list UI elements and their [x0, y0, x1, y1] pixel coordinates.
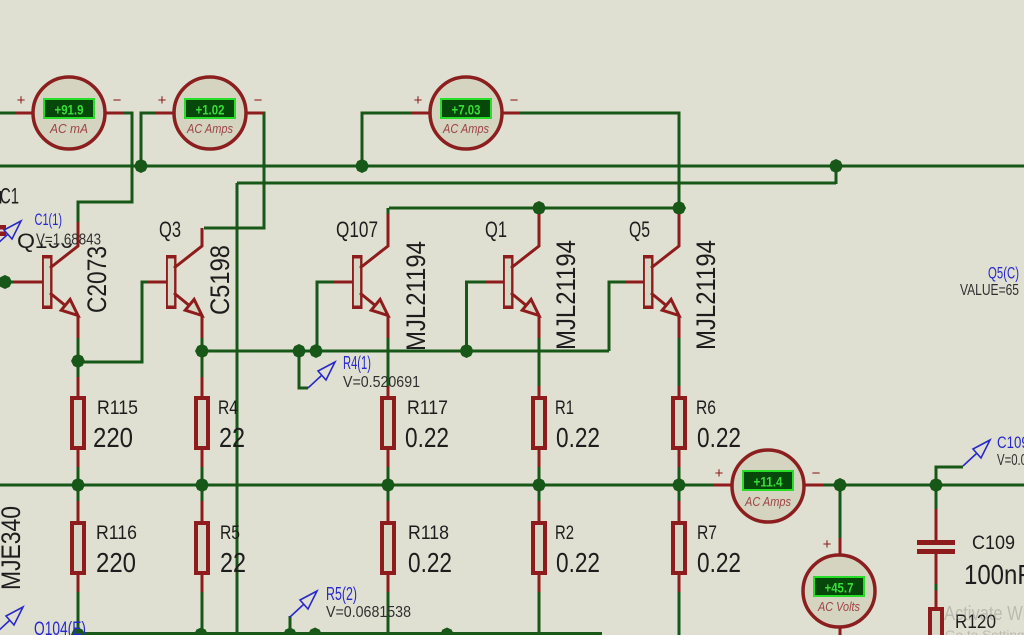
svg-text:AC Volts: AC Volts	[817, 600, 860, 614]
svg-text:R1: R1	[555, 397, 574, 419]
wire Q107 emitter to R117	[387, 337, 390, 387]
svg-text:MJE340: MJE340	[0, 506, 26, 590]
wire R1 bottom to bus3	[538, 466, 541, 485]
svg-text:−: −	[254, 92, 263, 109]
svg-text:−: −	[812, 465, 821, 482]
node Q3 emitter junction	[195, 344, 209, 358]
svg-text:Q1: Q1	[485, 217, 507, 242]
svg-text:22: 22	[220, 547, 246, 578]
node bus4 dot b	[440, 628, 454, 635]
svg-text:Q104(E): Q104(E)	[34, 619, 86, 635]
svg-text:C2073: C2073	[82, 246, 112, 313]
svg-text:+11.4: +11.4	[754, 474, 783, 490]
wire Q5 emitter to R6	[678, 337, 681, 387]
ammeter AM3 AC Amps	[412, 77, 520, 149]
resistor R1	[531, 386, 547, 467]
svg-text:V=0.520691: V=0.520691	[343, 374, 420, 391]
svg-text:−: −	[113, 92, 122, 109]
node bus1 x bus2 riser	[829, 159, 843, 173]
probe arrow C1(1)	[0, 221, 21, 247]
transistor Q106 C2073	[14, 222, 78, 338]
probe arrow R5(2)	[290, 591, 317, 617]
wire Q1 collector riser	[538, 208, 541, 216]
node bus3 x R6	[672, 478, 686, 492]
svg-text:220: 220	[93, 422, 133, 453]
svg-text:+: +	[414, 92, 423, 109]
wire R117 bottom to bus3	[387, 466, 390, 485]
svg-text:R5(2): R5(2)	[326, 584, 357, 604]
node bus3 x R4	[195, 478, 209, 492]
node ammeter4 output	[833, 478, 847, 492]
svg-text:R5: R5	[220, 522, 240, 544]
wire R6 bottom to bus3	[678, 466, 681, 485]
node bus3 x R1	[532, 478, 546, 492]
wire Q107 base riser	[317, 282, 334, 351]
svg-text:AC Amps: AC Amps	[744, 495, 791, 509]
svg-text:R4: R4	[218, 397, 238, 419]
wire Q107 collector riser	[387, 208, 390, 216]
transistor Q3 C5198	[148, 228, 202, 338]
wire bus1 main horizontal net y=166	[0, 165, 1024, 168]
node bus1 x ammeter3	[355, 159, 369, 173]
node Q106 emitter junction	[71, 354, 85, 368]
svg-text:AC Amps: AC Amps	[442, 122, 489, 136]
wire ammeter3 - down to collector net	[520, 113, 679, 208]
node bus4 x R116	[71, 628, 85, 635]
resistor R5	[194, 501, 210, 592]
probe arrow C109(1)	[963, 440, 990, 466]
node bus3 x R117	[381, 478, 395, 492]
probe arrow Q104(E)	[0, 607, 23, 633]
resistor R120	[928, 607, 944, 635]
svg-text:+45.7: +45.7	[825, 580, 854, 596]
svg-text:R6: R6	[696, 397, 716, 419]
resistor R115	[70, 377, 86, 467]
svg-text:+: +	[158, 92, 167, 109]
wire R5 bottom to bus4	[201, 592, 204, 633]
probe arrow R4(1)	[308, 362, 335, 388]
voltmeter VM1 AC Volts	[803, 536, 875, 635]
node collector net x Q1	[532, 201, 546, 215]
svg-text:Q5(C): Q5(C)	[988, 265, 1019, 283]
wire bus3 to R116 top	[77, 485, 80, 502]
svg-text:0.22: 0.22	[697, 422, 741, 453]
wire bus3 right part after ammeter4	[822, 484, 1024, 487]
svg-text:C1: C1	[0, 184, 19, 209]
wire R2 bottom to bus4	[538, 592, 541, 633]
wire bus2 horizontal net y=183	[237, 182, 836, 185]
svg-text:Go to Settings to activate Win: Go to Settings to activate Windows.	[945, 628, 1024, 635]
wire voltmeter riser from node	[839, 485, 842, 539]
wire C109 top lead	[935, 485, 938, 510]
wire R115 bottom to bus3	[77, 466, 80, 485]
svg-text:+: +	[715, 465, 724, 482]
svg-text:VALUE=65: VALUE=65	[960, 282, 1019, 299]
svg-text:+91.9: +91.9	[55, 102, 84, 118]
wire ammeter3 + from bus1 junction	[362, 113, 413, 167]
svg-text:0.22: 0.22	[556, 547, 600, 578]
wire bus3 to R118 top	[387, 485, 390, 502]
svg-text:0.22: 0.22	[697, 547, 741, 578]
svg-text:220: 220	[96, 547, 136, 578]
svg-text:Q5: Q5	[629, 217, 650, 242]
node bus4 dot a	[308, 628, 322, 635]
resistor R117	[380, 386, 396, 467]
resistor R116	[70, 501, 86, 592]
svg-text:C5198: C5198	[205, 245, 235, 315]
ammeter AM1 AC mA	[15, 77, 123, 149]
wire probe stub R5(2)	[289, 616, 292, 633]
node bus3 x R115	[71, 478, 85, 492]
wire R7 bottom lead	[678, 592, 681, 635]
svg-text:V=1.68843: V=1.68843	[36, 232, 101, 249]
svg-text:R117: R117	[407, 397, 448, 419]
wire ammeter1 + lead from left edge	[0, 112, 16, 115]
wire Q106 emitter node to R115	[77, 337, 80, 378]
svg-text:V=0.0681538: V=0.0681538	[326, 604, 411, 621]
wire ammeter1 - down to Q106 collector	[78, 113, 132, 223]
wire Q1 emitter to R1	[538, 337, 541, 387]
node bus4 x R5	[194, 628, 208, 635]
wire C109 node riser and probe stub	[936, 467, 963, 485]
transistor Q107 MJL21194	[334, 214, 388, 338]
node bus1 x ammeter2	[134, 159, 148, 173]
wire emitter node link to Q3 base	[78, 282, 148, 362]
svg-text:C109(1): C109(1)	[997, 434, 1024, 452]
svg-text:Q: Q	[17, 230, 35, 253]
svg-text:+1.02: +1.02	[196, 102, 225, 118]
wire Q5 collector riser	[678, 208, 681, 216]
node bus4 x probe R5(2)	[283, 628, 297, 635]
svg-text:Q3: Q3	[159, 217, 181, 242]
svg-text:0.22: 0.22	[408, 547, 452, 578]
svg-text:R116: R116	[96, 522, 137, 544]
resistor R7	[671, 501, 687, 592]
svg-text:0.22: 0.22	[556, 422, 600, 453]
wire Q106 base from left edge	[0, 281, 15, 284]
svg-text:R2: R2	[555, 522, 574, 544]
svg-text:R115: R115	[97, 397, 138, 419]
resistor R6	[671, 386, 687, 467]
wire base net y=351	[202, 350, 609, 353]
svg-text:0.22: 0.22	[405, 422, 449, 453]
svg-text:MJL21194: MJL21194	[401, 241, 431, 351]
wire bus3 to R7 top	[678, 485, 681, 502]
svg-text:R7: R7	[697, 522, 717, 544]
svg-text:+: +	[17, 92, 26, 109]
transistor Q5 MJL21194	[626, 214, 679, 338]
ammeter AM2 AC Amps	[156, 77, 264, 149]
wire Q3 emitter to R4	[201, 337, 204, 377]
node Q106 base edge	[0, 275, 12, 289]
svg-text:C1(1): C1(1)	[35, 211, 63, 229]
svg-text:Q107: Q107	[336, 217, 378, 242]
wire R4 bottom to bus3	[201, 466, 204, 485]
node Q1 base junction	[460, 344, 474, 358]
node C109 junction	[929, 478, 943, 492]
wire bus4 bottom net y=633	[78, 632, 602, 635]
svg-text:R118: R118	[408, 522, 449, 544]
node Q107 base junction	[309, 344, 323, 358]
wire collector net y=208 Q107-Q1-Q5	[389, 207, 679, 210]
svg-text:+: +	[823, 536, 832, 553]
wire probe stub R4(1)	[299, 351, 308, 388]
svg-text:+7.03: +7.03	[452, 102, 481, 118]
svg-text:AC mA: AC mA	[49, 122, 88, 136]
svg-text:MJL21194: MJL21194	[691, 240, 721, 350]
wire C109 bottom to R120	[935, 584, 938, 592]
svg-text:100nF: 100nF	[964, 559, 1024, 590]
resistor R4	[194, 377, 210, 467]
svg-text:C109: C109	[972, 532, 1015, 554]
wire bus3 output net y=485 left part	[0, 484, 714, 487]
node collector net x ammeter3	[672, 201, 686, 215]
svg-text:R4(1): R4(1)	[343, 353, 371, 373]
resistor R118	[380, 501, 396, 592]
capacitor C1 edge plates	[0, 225, 6, 236]
wire long vertical net x=237	[236, 183, 239, 633]
svg-text:MJL21194: MJL21194	[551, 240, 581, 350]
transistor Q1 MJL21194	[485, 214, 539, 338]
svg-text:V=0.0: V=0.0	[997, 452, 1024, 469]
wire bus3 to R5 top	[201, 485, 204, 502]
wire Q5 base riser	[609, 282, 626, 351]
wire R116 bottom to bus4	[77, 592, 80, 633]
wire ammeter2 - down to Q3 collector elbow	[204, 113, 264, 228]
capacitor C109 100nF	[917, 509, 955, 607]
wire R118 bottom to bus4	[387, 592, 390, 633]
svg-text:22: 22	[219, 422, 245, 453]
svg-text:Activate Windows: Activate Windows	[944, 603, 1024, 625]
wire bus2 riser to bus1 at x=836	[835, 166, 838, 184]
resistor R2	[531, 501, 547, 592]
wire ammeter2 + from bus1 junction	[141, 113, 157, 167]
svg-text:−: −	[510, 92, 519, 109]
svg-text:AC Amps: AC Amps	[186, 122, 233, 136]
node probe R4(1) junction	[292, 344, 306, 358]
wire Q1 base riser	[467, 282, 486, 351]
wire bus3 to R2 top	[538, 485, 541, 502]
ammeter AM4 AC Amps	[713, 450, 823, 522]
